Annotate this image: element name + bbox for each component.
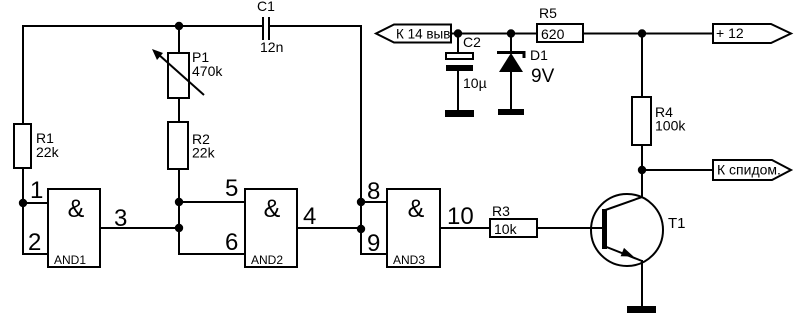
svg-text:12n: 12n <box>260 39 283 55</box>
svg-text:C1: C1 <box>257 0 275 14</box>
svg-text:22k: 22k <box>192 145 216 161</box>
svg-text:100k: 100k <box>655 118 686 134</box>
wire top-right rail flag to R5 <box>452 33 537 35</box>
svg-text:К спидом.: К спидом. <box>717 162 781 178</box>
ground under emitter <box>627 306 656 313</box>
node junction dot R1 pin1 <box>19 199 27 207</box>
svg-text:1: 1 <box>30 177 43 204</box>
svg-text:R3: R3 <box>492 203 510 219</box>
svg-text:&: & <box>408 195 425 223</box>
svg-text:10k: 10k <box>494 221 518 237</box>
node junction dot pin8 <box>357 198 365 206</box>
wire R2 down to AND2 pin 6 <box>179 169 245 254</box>
wire P1 top branch <box>178 26 180 53</box>
transistor T1 <box>591 194 663 266</box>
svg-text:620: 620 <box>541 26 565 42</box>
svg-text:T1: T1 <box>668 215 686 232</box>
wire AND3 output 10 <box>440 227 490 229</box>
wire collector node to speedometer flag <box>642 169 713 171</box>
svg-text:+ 12: + 12 <box>716 25 744 41</box>
node junction dot pin4 <box>357 225 365 233</box>
svg-text:&: & <box>68 195 85 223</box>
wire R3 to transistor base <box>537 227 602 229</box>
AND1 gate box <box>48 189 100 267</box>
wire rail to C2 <box>457 34 459 54</box>
potentiometer P1 <box>152 49 204 98</box>
wire from C1 right then down to AND3 inputs <box>270 26 387 254</box>
svg-text:D1: D1 <box>530 47 548 63</box>
capacitor C1 <box>263 17 269 40</box>
wire rail to D1 <box>510 34 512 52</box>
svg-text:2: 2 <box>28 229 41 256</box>
AND3 gate box <box>387 189 440 267</box>
ground under C2 <box>445 110 474 117</box>
wire top-left loop from R1 up and across to C1 <box>23 26 262 124</box>
svg-text:AND2: AND2 <box>251 253 283 267</box>
svg-text:8: 8 <box>367 178 380 205</box>
node junction dot R4 top <box>638 29 646 37</box>
resistor R5 <box>537 24 583 42</box>
svg-text:3: 3 <box>114 205 127 232</box>
node junction dot pin5 <box>175 198 183 206</box>
node junction dot top wire P1 <box>175 22 183 30</box>
svg-text:10: 10 <box>447 203 474 230</box>
wire AND1 output 3 <box>100 227 179 229</box>
svg-text:10µ: 10µ <box>463 75 487 91</box>
node junction dot collector <box>638 166 646 174</box>
wire R5 to +12 flag <box>583 33 713 35</box>
wire P1 to R2 <box>178 98 180 122</box>
svg-text:9: 9 <box>367 230 380 257</box>
node flag +12 <box>713 24 791 43</box>
svg-text:5: 5 <box>225 175 238 202</box>
node junction dot pin3 <box>175 224 183 232</box>
wire D1 to ground <box>510 72 512 109</box>
wire pin 1 branch <box>23 202 48 204</box>
node flag K 14 vyv <box>376 25 451 43</box>
wire R1 down to AND1 pin 2 <box>23 168 48 254</box>
wire rail down to R4 <box>641 34 643 98</box>
svg-text:22k: 22k <box>36 144 60 160</box>
svg-text:&: & <box>264 195 281 223</box>
resistor R2 <box>168 122 188 169</box>
wire pin 8 branch <box>361 201 387 203</box>
node flag K spidom <box>713 160 791 180</box>
svg-text:6: 6 <box>225 229 238 256</box>
svg-text:C2: C2 <box>463 34 481 50</box>
svg-text:9V: 9V <box>531 66 555 87</box>
svg-text:R5: R5 <box>539 5 557 21</box>
AND2 gate box <box>245 189 297 267</box>
diode D1 zener <box>497 53 524 73</box>
wire AND2 output 4 <box>297 227 361 229</box>
svg-text:К 14 выв: К 14 выв <box>396 27 450 42</box>
wire emitter down to ground <box>641 260 643 306</box>
svg-text:4: 4 <box>303 203 316 230</box>
ground under D1 <box>498 109 524 115</box>
svg-text:AND1: AND1 <box>54 253 86 267</box>
resistor R4 <box>632 97 651 145</box>
resistor R1 <box>14 124 31 168</box>
wire pin 5 branch <box>179 201 245 203</box>
wire collector up to R4 <box>641 145 643 198</box>
wire C2 to ground <box>457 71 459 110</box>
node junction dot C2 <box>454 29 462 37</box>
capacitor C2 <box>446 53 473 71</box>
node junction dot D1 <box>507 29 515 37</box>
resistor R3 <box>490 219 537 237</box>
svg-text:AND3: AND3 <box>393 253 425 267</box>
svg-text:470k: 470k <box>192 63 223 79</box>
